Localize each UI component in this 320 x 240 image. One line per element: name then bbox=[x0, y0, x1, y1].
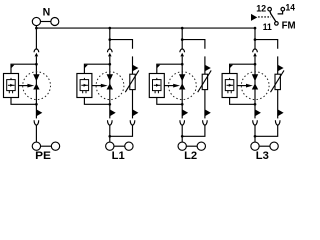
wire L3 main line bbox=[254, 56, 256, 118]
wire L1 drop from bus bbox=[109, 28, 111, 49]
varistor line L2 bbox=[204, 56, 206, 118]
monitoring device box PE bbox=[4, 74, 19, 98]
junction N/PE bbox=[35, 27, 38, 30]
plug socket bottom L1 bbox=[108, 120, 113, 125]
wire L3 drop from bus bbox=[254, 28, 256, 49]
junction L1 box top bbox=[108, 63, 111, 66]
pluggable module dashed circle PE bbox=[23, 72, 51, 100]
pluggable module dashed circle L2 bbox=[169, 72, 197, 100]
plug socket bottom L3 bbox=[253, 120, 258, 125]
disconnect flag varistor bottom L1 bbox=[133, 109, 139, 116]
FM contact 14 bbox=[281, 7, 285, 11]
wire N terminal to bus bbox=[35, 26, 37, 28]
monitoring device box L3 bbox=[222, 74, 237, 98]
plug socket top L2 bbox=[180, 49, 185, 52]
junction bus/L2 bbox=[181, 27, 184, 30]
svg-text:14: 14 bbox=[286, 1, 296, 12]
svg-text:12: 12 bbox=[256, 3, 266, 13]
wire varistor rejoin L1 bbox=[110, 125, 133, 136]
wire PE main line bbox=[35, 56, 37, 118]
wire box bottom connector L2 bbox=[157, 98, 182, 105]
spark gap L2 bbox=[179, 74, 185, 89]
plug socket top L3 bbox=[253, 49, 258, 52]
junction L2 box top bbox=[181, 63, 184, 66]
disconnect flag bottom L3 bbox=[255, 109, 261, 116]
wire box bottom connector L1 bbox=[84, 98, 109, 105]
FM contact 11 (common) bbox=[275, 22, 279, 26]
wire L3 branch to varistor line bbox=[255, 40, 278, 49]
wire L2 main line bbox=[181, 56, 183, 118]
disconnect flag varistor bottom L3 bbox=[278, 109, 284, 116]
wire L2 drop from bus bbox=[181, 28, 183, 49]
plug socket bottom L2 bbox=[180, 120, 185, 125]
plug pin top L2 bbox=[180, 53, 184, 57]
wire PE drop from bus bbox=[35, 28, 37, 49]
junction L3 rejoin bbox=[254, 135, 257, 138]
terminal L1 (double clamp) bbox=[106, 142, 133, 150]
wire L1 to terminal bbox=[109, 125, 111, 142]
junction L3 box top bbox=[254, 63, 257, 66]
wire box top connector L2 bbox=[157, 64, 182, 73]
wire box middle connector L2 bbox=[164, 85, 174, 87]
FM mechanical link (dotted) bbox=[258, 16, 271, 18]
varistor L3 bbox=[271, 70, 285, 92]
spark gap L3 bbox=[252, 74, 258, 89]
svg-text:L3: L3 bbox=[256, 150, 269, 162]
wire box top connector L1 bbox=[84, 64, 109, 73]
arrow into box PE bbox=[11, 65, 15, 69]
arrow into box L1 bbox=[84, 65, 88, 69]
wire L1 branch to varistor line bbox=[110, 40, 133, 49]
junction L2 rejoin bbox=[181, 135, 184, 138]
arrow box middle L1 bbox=[101, 84, 108, 88]
wire L2 branch to varistor line bbox=[182, 40, 205, 49]
junction L1 T bbox=[108, 38, 111, 41]
disconnect flag varistor bottom L2 bbox=[205, 109, 211, 116]
wire box bottom connector PE bbox=[11, 98, 36, 105]
plug socket bottom varistor L2 bbox=[203, 120, 208, 125]
junction L2 box bottom bbox=[181, 103, 184, 106]
wire box top connector PE bbox=[11, 64, 36, 73]
junction L3 T bbox=[254, 38, 257, 41]
pluggable module dashed circle L1 bbox=[96, 72, 124, 100]
monitoring device box L1 bbox=[77, 74, 92, 98]
plug pin top L1 bbox=[108, 53, 112, 57]
svg-text:L2: L2 bbox=[184, 150, 197, 162]
disconnect flag varistor L1 bbox=[133, 65, 139, 71]
wire box top connector L3 bbox=[230, 64, 255, 73]
wire box bottom connector L3 bbox=[230, 98, 255, 105]
arrow box middle L2 bbox=[173, 84, 180, 88]
junction L2 T bbox=[181, 38, 184, 41]
svg-text:FM: FM bbox=[282, 20, 296, 31]
FM actuator arrow bbox=[251, 14, 257, 21]
plug socket top L1 bbox=[108, 49, 113, 52]
terminal L2 (double clamp) bbox=[178, 142, 205, 150]
FM contact 12 bbox=[268, 7, 272, 11]
plug socket bottom varistor L1 bbox=[130, 120, 135, 125]
FM switch arm bbox=[270, 11, 276, 22]
disconnect flag varistor L2 bbox=[205, 65, 211, 71]
wire box middle connector L1 bbox=[92, 85, 102, 87]
plug socket bottom PE bbox=[34, 120, 39, 125]
terminal N (double clamp) bbox=[32, 17, 58, 25]
svg-text:11: 11 bbox=[263, 22, 272, 32]
wire L3 to terminal bbox=[254, 125, 256, 142]
wire box middle connector PE bbox=[19, 85, 29, 87]
terminal L3 (double clamp) bbox=[251, 142, 278, 150]
junction bus/L3 bbox=[254, 27, 257, 30]
FM terminal 14 hook bbox=[278, 11, 283, 14]
junction bus/L1 bbox=[108, 27, 111, 30]
varistor line L1 bbox=[132, 56, 134, 118]
svg-text:L1: L1 bbox=[112, 150, 125, 162]
svg-text:PE: PE bbox=[35, 150, 51, 162]
junction L1 box bottom bbox=[108, 103, 111, 106]
arrow into box L2 bbox=[157, 65, 161, 69]
arrow box middle PE bbox=[27, 84, 34, 88]
wire PE to terminal bbox=[35, 125, 37, 142]
svg-text:N: N bbox=[43, 6, 51, 18]
terminal PE (double clamp) bbox=[32, 142, 59, 150]
disconnect flag bottom PE bbox=[36, 109, 42, 116]
junction L3 box bottom bbox=[254, 103, 257, 106]
wire box middle connector L3 bbox=[237, 85, 247, 87]
varistor line L3 bbox=[277, 56, 279, 118]
wire N bus bbox=[36, 27, 255, 29]
monitoring device box L2 bbox=[149, 74, 164, 98]
varistor L1 bbox=[125, 70, 139, 92]
wire L2 to terminal bbox=[181, 125, 183, 142]
wire varistor rejoin L3 bbox=[255, 125, 278, 136]
arrow into box L3 bbox=[229, 65, 233, 69]
plug pin top PE bbox=[35, 53, 39, 57]
plug socket bottom varistor L3 bbox=[275, 120, 280, 125]
plug socket top PE bbox=[34, 49, 39, 52]
junction L1 rejoin bbox=[108, 135, 111, 138]
plug pin top L3 bbox=[253, 53, 257, 57]
arrow box middle L3 bbox=[246, 84, 253, 88]
pluggable module dashed circle L3 bbox=[241, 72, 269, 100]
spark gap L1 bbox=[107, 74, 113, 89]
disconnect flag varistor L3 bbox=[278, 65, 284, 71]
varistor L2 bbox=[198, 70, 212, 92]
disconnect flag bottom L2 bbox=[182, 109, 188, 116]
wire varistor rejoin L2 bbox=[182, 125, 205, 136]
junction PE box top bbox=[35, 63, 38, 66]
disconnect flag bottom L1 bbox=[110, 109, 116, 116]
spark gap PE bbox=[33, 74, 39, 89]
junction PE box bottom bbox=[35, 103, 38, 106]
wire L1 main line bbox=[109, 56, 111, 118]
